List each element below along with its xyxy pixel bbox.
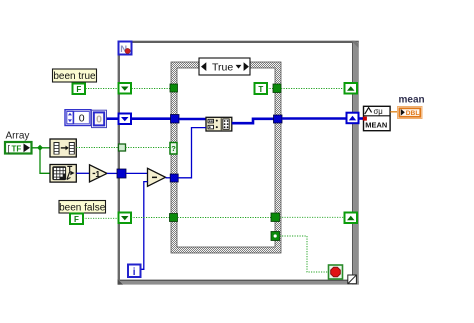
- svg-text:1: 1: [95, 169, 100, 179]
- svg-text:been true: been true: [53, 71, 96, 82]
- svg-text:mean: mean: [399, 94, 425, 105]
- svg-text:TF: TF: [12, 144, 22, 153]
- svg-text:0: 0: [96, 114, 102, 126]
- svg-text:T: T: [258, 85, 263, 94]
- svg-text:been false: been false: [59, 202, 106, 213]
- svg-text:True: True: [212, 61, 233, 73]
- svg-text:F: F: [74, 215, 79, 224]
- svg-text:?: ?: [171, 144, 176, 153]
- svg-text:σμ: σμ: [374, 107, 383, 116]
- svg-text:MEAN: MEAN: [365, 121, 387, 130]
- svg-text:DBL: DBL: [406, 110, 420, 117]
- svg-text:F: F: [76, 85, 81, 94]
- svg-text:Array: Array: [6, 131, 30, 142]
- svg-text:0: 0: [79, 113, 85, 125]
- svg-text:i: i: [133, 267, 136, 278]
